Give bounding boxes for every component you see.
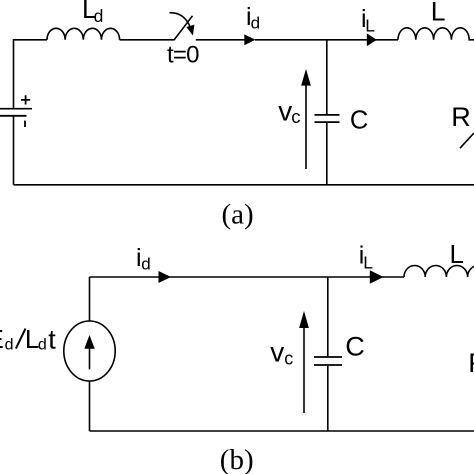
svg-text:C: C	[345, 332, 365, 362]
svg-text:t=0: t=0	[167, 42, 199, 69]
wire: (a) left vertical below battery	[13, 117, 15, 185]
svg-text:v: v	[278, 95, 292, 126]
switch closing motion arc	[170, 13, 191, 27]
wire: (a) switch right contact to node	[196, 39, 246, 41]
inductor Ld coil	[47, 28, 120, 40]
wire: (a) bottom rail	[14, 184, 474, 186]
battery E (a): long + plate	[0, 108, 32, 110]
wire: (a) segment from Ld to switch left contact	[120, 39, 175, 41]
svg-text:c: c	[284, 349, 293, 369]
battery E (a): short - plate	[0, 115, 27, 117]
wire: (b) current source top lead	[89, 277, 91, 321]
current source symbol	[64, 321, 115, 381]
svg-text:C: C	[350, 106, 368, 134]
arrow vc (b)	[303, 326, 305, 413]
svg-text:d: d	[94, 6, 104, 26]
wire: (a) node to inductor L	[255, 39, 398, 41]
svg-text:d: d	[141, 255, 150, 274]
inductor L (b) coil	[404, 266, 474, 278]
wire: (b) capacitor branch bottom lead	[327, 366, 329, 431]
resistor R (a) zigzag stub	[460, 133, 474, 148]
wire: (a) top-left segment and left vertical to battery + terminal	[14, 40, 48, 108]
svg-text:t: t	[48, 325, 56, 355]
arrow iL (a)	[367, 33, 377, 46]
wire: (a) capacitor branch top lead	[326, 40, 328, 114]
svg-text:R: R	[451, 102, 471, 132]
inductor L (a) coil with right stub	[398, 28, 474, 40]
switch arrowhead	[186, 25, 194, 36]
wire: (a) capacitor branch bottom lead	[326, 123, 328, 185]
arrow iL (b)	[370, 270, 384, 284]
svg-text:R: R	[468, 348, 474, 378]
current source arrow	[89, 348, 91, 369]
svg-text:L: L	[363, 253, 373, 273]
svg-text:E: E	[0, 324, 4, 354]
arrow vc (a)	[305, 83, 307, 169]
arrow id (b)	[159, 271, 172, 283]
switch S blade	[174, 16, 193, 40]
capacitor C (a) plates	[315, 115, 340, 122]
svg-text:(b): (b)	[220, 444, 254, 474]
capacitor C (b) plates	[314, 357, 342, 365]
svg-text:d: d	[5, 337, 14, 354]
battery plus sign	[21, 95, 30, 104]
svg-text:c: c	[291, 106, 300, 127]
svg-text:d: d	[251, 14, 260, 33]
svg-text:v: v	[270, 336, 284, 367]
wire: (b) capacitor branch top lead	[327, 277, 329, 356]
svg-text:L: L	[365, 15, 375, 35]
wire: (b) current source bottom lead	[89, 381, 91, 431]
wire: (b) bottom rail	[90, 430, 474, 432]
svg-text:(a): (a)	[222, 199, 254, 231]
svg-text:L: L	[431, 0, 446, 26]
svg-text:d: d	[38, 337, 47, 354]
wire: (b) top rail from source to inductor	[90, 276, 405, 278]
svg-text:L: L	[450, 239, 464, 269]
battery minus mark	[24, 121, 26, 127]
arrow id (a)	[244, 34, 255, 45]
